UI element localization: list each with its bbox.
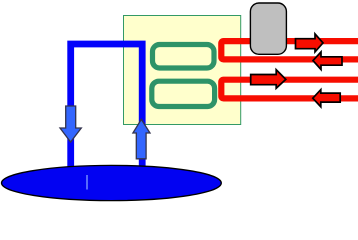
down flow arrow: [60, 106, 81, 142]
hot water loop top: [221, 41, 358, 59]
flow arrow left upper: [313, 52, 342, 70]
flow arrow right middle: [251, 70, 286, 89]
flow arrow left lower: [313, 90, 340, 107]
up flow arrow: [133, 119, 150, 158]
exchanger plate bottom: [152, 81, 215, 106]
hot water loop bottom: [221, 80, 358, 99]
exchanger plate top: [153, 45, 215, 69]
compressor unit: [250, 3, 286, 54]
flow arrow right top: [296, 34, 324, 52]
pond highlight: [86, 175, 88, 190]
heat exchanger box: [124, 16, 241, 125]
ground water pond: [2, 165, 222, 200]
ground loop pipe: [71, 44, 143, 183]
